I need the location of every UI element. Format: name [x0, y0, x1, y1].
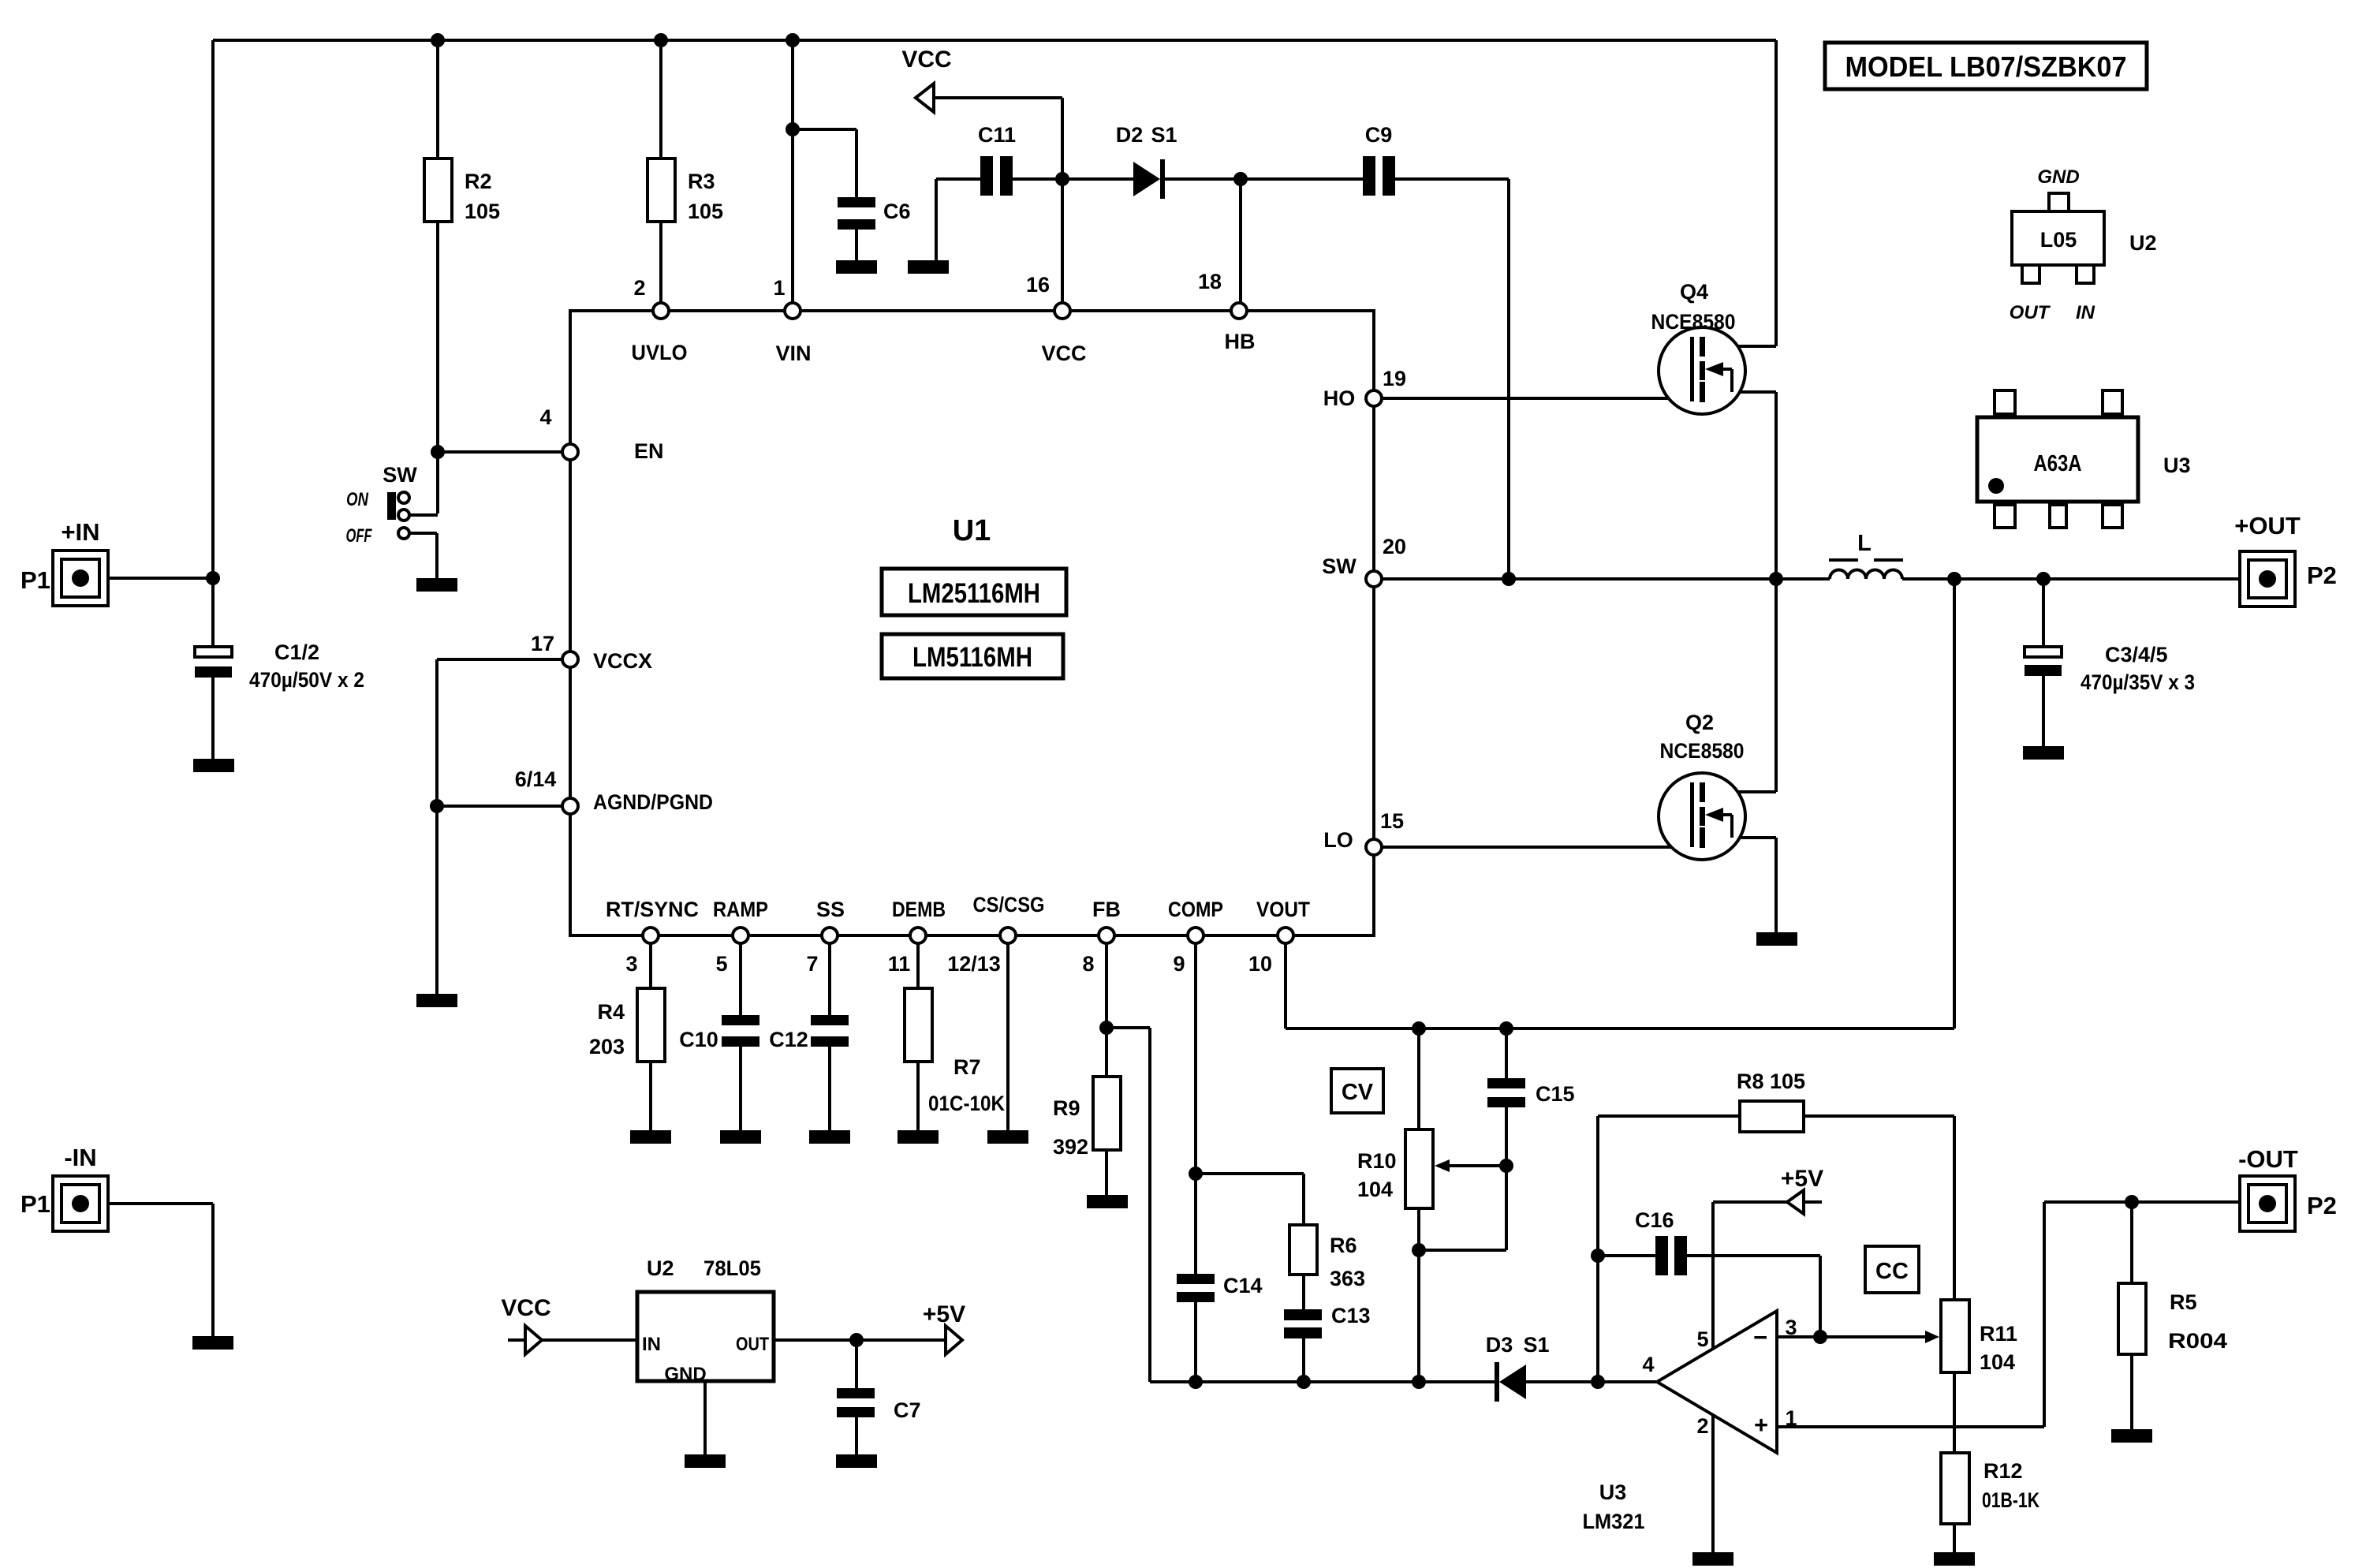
capacitor C15 [1487, 1078, 1575, 1107]
pin 2 UVLO [653, 303, 669, 319]
ground R7 [898, 1130, 939, 1144]
svg-text:NCE8580: NCE8580 [1660, 739, 1745, 763]
IC U3 A63A package [1977, 390, 2191, 528]
ground R4 [630, 1130, 671, 1144]
pin 9 COMP [1188, 928, 1204, 943]
svg-text:Q2: Q2 [1685, 711, 1714, 734]
svg-text:OUT: OUT [2010, 302, 2051, 323]
svg-text:AGND/PGND: AGND/PGND [593, 790, 713, 814]
resistor R5 [2118, 1283, 2227, 1354]
node HB junction [1233, 172, 1248, 186]
node COMP/R6 junction [1189, 1167, 1203, 1181]
svg-text:CV: CV [1342, 1080, 1374, 1105]
svg-text:DEMB: DEMB [892, 898, 946, 921]
svg-text:LM25116MH: LM25116MH [908, 578, 1040, 609]
node +IN junction [206, 571, 220, 585]
wire R2 top [436, 40, 439, 159]
pin 12/13 CS/CSG [1000, 928, 1016, 943]
ground C6 [836, 260, 877, 274]
svg-text:LO: LO [1323, 828, 1353, 852]
ground R5 [2111, 1429, 2152, 1443]
node R8 vertical junction [1591, 1375, 1605, 1389]
svg-text:R7: R7 [953, 1055, 981, 1079]
node rail VIN [786, 33, 800, 47]
wire R11 to R12 [1953, 1372, 1956, 1453]
svg-text:VCCX: VCCX [593, 649, 652, 673]
svg-text:104: 104 [1357, 1178, 1393, 1201]
resistor R2 [424, 159, 500, 223]
potentiometer R10 [1357, 1129, 1506, 1208]
capacitor C16 [1635, 1208, 1687, 1275]
svg-text:VCC: VCC [901, 47, 951, 73]
svg-text:A63A: A63A [2034, 451, 2082, 476]
node C3/4/5 junction [2036, 572, 2051, 586]
svg-text:20: 20 [1383, 535, 1406, 558]
pin 7 SS [822, 928, 838, 943]
svg-text:8: 8 [1082, 952, 1094, 976]
svg-text:+: + [1754, 1411, 1768, 1439]
wire FB chain [1105, 943, 1108, 1195]
svg-text:IN: IN [642, 1334, 661, 1355]
pin 3 RT/SYNC [643, 928, 659, 943]
svg-text:C1/2: C1/2 [274, 640, 319, 664]
net +5V arrow op-amp [1781, 1166, 1823, 1214]
svg-text:105: 105 [688, 200, 723, 223]
ground R12 [1934, 1552, 1975, 1566]
resistor R7 [905, 988, 1005, 1115]
wire VCC to U2 IN [542, 1338, 637, 1342]
node C6 tap [786, 122, 800, 136]
svg-text:470µ/35V x 3: 470µ/35V x 3 [2081, 670, 2195, 694]
svg-text:17: 17 [531, 632, 554, 655]
node R10 bottom junction [1412, 1243, 1426, 1257]
ground op-amp pin2 [1692, 1552, 1733, 1566]
svg-text:−: − [1753, 1323, 1767, 1351]
wire VCCX [437, 659, 562, 994]
pin 8 FB [1099, 928, 1114, 943]
wire R8 net vertical [1596, 1116, 1599, 1382]
svg-text:10: 10 [1248, 952, 1272, 976]
net +5V arrow 78L05 [923, 1301, 965, 1354]
svg-text:U2: U2 [2129, 231, 2157, 255]
node AGND junction [430, 799, 444, 813]
diode D2 S1 [1116, 123, 1177, 199]
wire LO to Q2 gate [1382, 846, 1691, 849]
svg-text:78L05: 78L05 [703, 1256, 761, 1280]
wire COMP chain [1194, 943, 1197, 1382]
resistor R3 [647, 159, 723, 223]
svg-text:18: 18 [1198, 270, 1222, 293]
svg-text:2: 2 [1696, 1414, 1708, 1438]
box CC [1865, 1246, 1919, 1293]
IC U1 box [570, 311, 1374, 935]
wire SS to C12 [828, 943, 831, 1130]
svg-text:RAMP: RAMP [713, 898, 768, 921]
transistor Q2 NCE8580 [1659, 711, 1745, 860]
svg-text:LM5116MH: LM5116MH [912, 642, 1032, 673]
wire D2 cathode [1165, 177, 1363, 181]
wire FB stub to CV line [1106, 1028, 1150, 1382]
svg-text:5: 5 [1696, 1327, 1708, 1351]
wire VOUT sense [1286, 579, 1954, 1029]
diode D3 S1 [1486, 1333, 1550, 1402]
svg-text:VOUT: VOUT [1256, 898, 1310, 921]
svg-text:3: 3 [625, 952, 637, 976]
wire Q4 source to SW [1705, 392, 1776, 579]
pin 11 DEMB [910, 928, 926, 943]
wire -IN to ground [108, 1204, 213, 1336]
resistor R8 [1737, 1070, 1805, 1132]
wire C1/2 drop [211, 578, 215, 759]
svg-text:MODEL LB07/SZBK07: MODEL LB07/SZBK07 [1845, 50, 2127, 83]
svg-text:SW: SW [1322, 554, 1357, 578]
svg-text:CS/CSG: CS/CSG [973, 893, 1045, 917]
wire C11 right [1013, 177, 1062, 181]
svg-text:104: 104 [1980, 1350, 2015, 1374]
capacitor C9 [1363, 123, 1395, 196]
node R10 top junction [1412, 1021, 1426, 1036]
box CV [1331, 1069, 1383, 1113]
node C9/SW junction [1502, 572, 1516, 586]
wire left input drop [211, 40, 215, 578]
svg-text:16: 16 [1026, 273, 1050, 297]
port P2 -OUT [2238, 1145, 2337, 1231]
svg-text:EN: EN [634, 439, 664, 463]
wire R10 bottom to wiper [1419, 1166, 1506, 1250]
transistor Q4 NCE8580 [1651, 280, 1746, 414]
pin 15 LO [1366, 839, 1382, 855]
pin 10 VOUT [1278, 928, 1293, 943]
svg-text:U2: U2 [647, 1256, 674, 1280]
svg-text:392: 392 [1053, 1135, 1088, 1159]
svg-text:SS: SS [816, 898, 845, 921]
wire R3 top [659, 40, 662, 159]
ground C7 [836, 1454, 877, 1468]
node wiper junction [1499, 1159, 1513, 1173]
svg-text:COMP: COMP [1168, 898, 1223, 921]
svg-text:C13: C13 [1331, 1304, 1371, 1327]
switch SW [346, 463, 418, 547]
wire C9 to SW rail [1395, 179, 1509, 579]
svg-text:203: 203 [589, 1035, 625, 1058]
resistor R6 [1289, 1225, 1365, 1290]
node EN junction [431, 445, 445, 459]
svg-text:VCC: VCC [1041, 342, 1086, 365]
svg-text:RT/SYNC: RT/SYNC [606, 898, 699, 921]
svg-text:C11: C11 [978, 123, 1016, 147]
svg-text:S1: S1 [1523, 1333, 1549, 1357]
svg-text:R9: R9 [1053, 1096, 1080, 1120]
pin 17 VCCX [562, 651, 578, 667]
svg-text:+5V: +5V [1781, 1166, 1823, 1192]
svg-text:LM321: LM321 [1583, 1510, 1645, 1533]
ground C11 [908, 260, 949, 274]
svg-text:R5: R5 [2170, 1290, 2197, 1314]
wire RAMP to C10 [739, 943, 742, 1130]
pin 1 VIN [785, 303, 800, 319]
ground -IN [192, 1336, 233, 1350]
wire AGND to pin [437, 805, 562, 808]
capacitor C6 [838, 197, 911, 230]
wire -OUT rail [2044, 1200, 2240, 1204]
svg-text:P2: P2 [2307, 1192, 2337, 1219]
node rail R2 [431, 33, 445, 47]
svg-text:6/14: 6/14 [515, 767, 557, 791]
svg-text:R3: R3 [688, 170, 715, 193]
svg-text:1: 1 [773, 276, 785, 300]
ground AGND [416, 994, 457, 1007]
port P2 +OUT [2234, 512, 2337, 607]
wire CS/CSG [1006, 943, 1009, 1130]
ground Q2 source [1756, 932, 1797, 946]
svg-text:U3: U3 [1599, 1480, 1627, 1504]
port P1 +IN [21, 518, 108, 606]
svg-text:P1: P1 [21, 566, 50, 594]
svg-text:7: 7 [806, 952, 818, 976]
svg-text:GND: GND [664, 1364, 706, 1385]
node SW midpoint junction [1769, 572, 1783, 586]
wire Q2 drain from SW [1705, 579, 1776, 792]
wire opamp pin3 [1777, 1335, 1820, 1338]
wire SW rail [1382, 577, 2240, 581]
svg-text:NCE8580: NCE8580 [1651, 310, 1736, 334]
node C15 top junction [1499, 1021, 1513, 1036]
svg-text:R8 105: R8 105 [1737, 1070, 1805, 1093]
svg-text:+OUT: +OUT [2234, 512, 2301, 539]
wire SW off pin to ground [409, 533, 437, 578]
wire R8 horizontal [1598, 1116, 1954, 1300]
svg-text:+IN: +IN [61, 518, 99, 546]
wire SW mid pin [409, 513, 438, 517]
node rail R3 [654, 33, 668, 47]
svg-text:U3: U3 [2163, 454, 2191, 477]
svg-text:UVLO: UVLO [632, 341, 688, 364]
wire D2 anode [1062, 177, 1133, 181]
wire P1 +IN to rail [108, 577, 213, 580]
node VOUT sense junction [1947, 572, 1961, 586]
svg-text:R12: R12 [1983, 1459, 2023, 1483]
capacitor C11 [978, 123, 1016, 196]
svg-text:C12: C12 [769, 1028, 808, 1051]
svg-text:D3: D3 [1486, 1333, 1513, 1357]
ground SW [416, 578, 457, 592]
pin 18 HB [1231, 303, 1247, 319]
pin 5 RAMP [733, 928, 748, 943]
node R5 junction [2125, 1195, 2139, 1209]
capacitor C13 [1284, 1304, 1371, 1338]
wire C6 [793, 129, 856, 260]
wire C15 [1505, 1029, 1508, 1166]
svg-text:P2: P2 [2307, 562, 2337, 589]
port P1 -IN [21, 1144, 108, 1231]
svg-text:ON: ON [346, 489, 369, 510]
pin 4 EN [562, 444, 578, 460]
node C7 junction [849, 1333, 864, 1347]
svg-text:HB: HB [1225, 330, 1256, 353]
svg-text:R2: R2 [465, 170, 492, 193]
svg-text:D2: D2 [1116, 123, 1144, 147]
wire Q2 source to ground [1705, 838, 1776, 932]
wire pin3 to R11 wiper [1820, 1335, 1928, 1338]
node C16 left junction [1591, 1249, 1605, 1263]
wire C11 left to ground [936, 179, 980, 260]
wire C16 right to pin3 [1687, 1256, 1820, 1337]
svg-text:L: L [1857, 531, 1872, 556]
ground CS/CSG [987, 1130, 1028, 1144]
wire VIN drop [791, 40, 794, 303]
capacitor C10 [679, 1015, 759, 1051]
ground U2 [685, 1454, 726, 1468]
pin 19 HO [1366, 390, 1382, 406]
ground C1/2 [193, 759, 234, 772]
svg-text:R6: R6 [1330, 1234, 1357, 1257]
capacitor C3/4/5 [2025, 643, 2195, 694]
svg-text:R11: R11 [1980, 1322, 2017, 1346]
svg-text:VIN: VIN [775, 342, 811, 365]
net VCC arrow 78L05 [501, 1295, 550, 1354]
wire top rail [213, 39, 1776, 42]
svg-text:C16: C16 [1635, 1208, 1674, 1232]
node C14 bottom junction [1189, 1375, 1203, 1389]
potentiometer R11 [1941, 1300, 2017, 1374]
wire C16 left [1598, 1254, 1655, 1257]
node R10 chain junction [1412, 1375, 1426, 1389]
svg-text:C14: C14 [1223, 1274, 1263, 1297]
wire C3/4/5 drop [2042, 579, 2045, 746]
svg-text:CC: CC [1875, 1259, 1909, 1284]
IC U2 78L05 [637, 1256, 774, 1385]
svg-text:S1: S1 [1151, 123, 1177, 147]
svg-text:C7: C7 [894, 1398, 921, 1422]
svg-text:L05: L05 [2040, 228, 2077, 252]
svg-text:4: 4 [1642, 1353, 1654, 1376]
IC U2 L05 package [2010, 166, 2157, 323]
svg-text:R10: R10 [1357, 1149, 1397, 1173]
pin 20 SW [1366, 571, 1382, 587]
wire EN [438, 450, 562, 454]
svg-text:-IN: -IN [64, 1144, 96, 1171]
inductor L [1829, 531, 1903, 579]
capacitor C12 [769, 1015, 849, 1051]
svg-text:5: 5 [715, 952, 727, 976]
svg-text:470µ/50V x 2: 470µ/50V x 2 [249, 668, 364, 692]
capacitor C7 [837, 1388, 921, 1422]
svg-text:C3/4/5: C3/4/5 [2105, 643, 2168, 666]
ground C3/4/5 [2023, 746, 2064, 760]
node FB junction [1099, 1021, 1114, 1035]
svg-text:4: 4 [539, 405, 551, 429]
wire R3 to pin2 [659, 222, 662, 303]
svg-text:-OUT: -OUT [2238, 1145, 2298, 1173]
title box MODEL LB07/SZBK07 [1825, 43, 2147, 89]
resistor R12 [1941, 1453, 2039, 1524]
wire +5V to opamp supply [1713, 1202, 1822, 1552]
wire long bottom net [1150, 1380, 1657, 1383]
svg-text:FB: FB [1092, 898, 1121, 921]
wire R6 branch [1196, 1174, 1304, 1382]
pin 16 VCC [1054, 303, 1070, 319]
wire VCC arrow to VCC pin [934, 98, 1062, 303]
ground C12 [809, 1130, 850, 1144]
svg-text:C15: C15 [1536, 1082, 1575, 1106]
resistor R9 [1053, 1077, 1121, 1159]
svg-text:C10: C10 [679, 1028, 718, 1051]
wire Q4 drain from rail [1705, 40, 1776, 346]
label box LM25116MH [882, 569, 1066, 615]
svg-text:GND: GND [2037, 166, 2079, 188]
svg-text:C9: C9 [1365, 123, 1393, 147]
ground R9 [1087, 1195, 1128, 1208]
svg-text:SW: SW [383, 463, 417, 487]
label box LM5116MH [882, 634, 1063, 678]
svg-text:01B-1K: 01B-1K [1982, 1488, 2039, 1512]
wire U2 OUT to +5V [774, 1338, 946, 1342]
wire DEMB to R7 [916, 943, 920, 1130]
svg-text:VCC: VCC [501, 1295, 550, 1321]
wire U2 GND to ground [703, 1381, 707, 1454]
resistor R4 [589, 988, 665, 1062]
net VCC arrow top [901, 47, 951, 112]
capacitor C14 [1177, 1274, 1263, 1302]
svg-text:R004: R004 [2168, 1329, 2227, 1353]
svg-text:2: 2 [633, 276, 645, 300]
wire HB drop [1239, 179, 1242, 303]
svg-text:IN: IN [2076, 302, 2095, 323]
wire R5 [2130, 1202, 2133, 1429]
wire R2 bottom [436, 222, 439, 513]
svg-text:Q4: Q4 [1680, 280, 1708, 304]
wire C7 [855, 1340, 858, 1454]
op-amp U3 LM321 [1583, 1311, 1797, 1533]
svg-text:P1: P1 [21, 1190, 50, 1218]
svg-text:R4: R4 [597, 1000, 625, 1024]
svg-text:U1: U1 [953, 514, 991, 547]
svg-text:363: 363 [1330, 1267, 1365, 1290]
svg-text:19: 19 [1383, 367, 1406, 390]
wire RT/SYNC to R4 [649, 943, 652, 1130]
wire opamp pin1 [1777, 1202, 2044, 1427]
node pin3 junction [1813, 1330, 1827, 1344]
wire HO to Q4 gate [1382, 397, 1691, 400]
svg-text:01C-10K: 01C-10K [928, 1092, 1005, 1115]
svg-text:HO: HO [1323, 386, 1356, 410]
svg-text:12/13: 12/13 [947, 952, 1001, 976]
wire R10 bottom [1417, 1208, 1420, 1382]
svg-text:105: 105 [465, 200, 500, 223]
node C13 bottom junction [1297, 1375, 1311, 1389]
ground C10 [720, 1130, 761, 1144]
capacitor C1/2 [195, 640, 364, 692]
svg-text:OUT: OUT [736, 1334, 769, 1355]
svg-text:C6: C6 [883, 200, 911, 223]
wire R12 to ground [1953, 1524, 1956, 1552]
svg-text:9: 9 [1173, 952, 1185, 976]
svg-text:OFF: OFF [346, 525, 373, 547]
pin 6/14 AGND/PGND [562, 798, 578, 814]
wire R10 top [1417, 1029, 1420, 1129]
svg-text:11: 11 [888, 952, 911, 976]
node VCC junction [1055, 172, 1069, 186]
svg-text:15: 15 [1380, 809, 1404, 833]
